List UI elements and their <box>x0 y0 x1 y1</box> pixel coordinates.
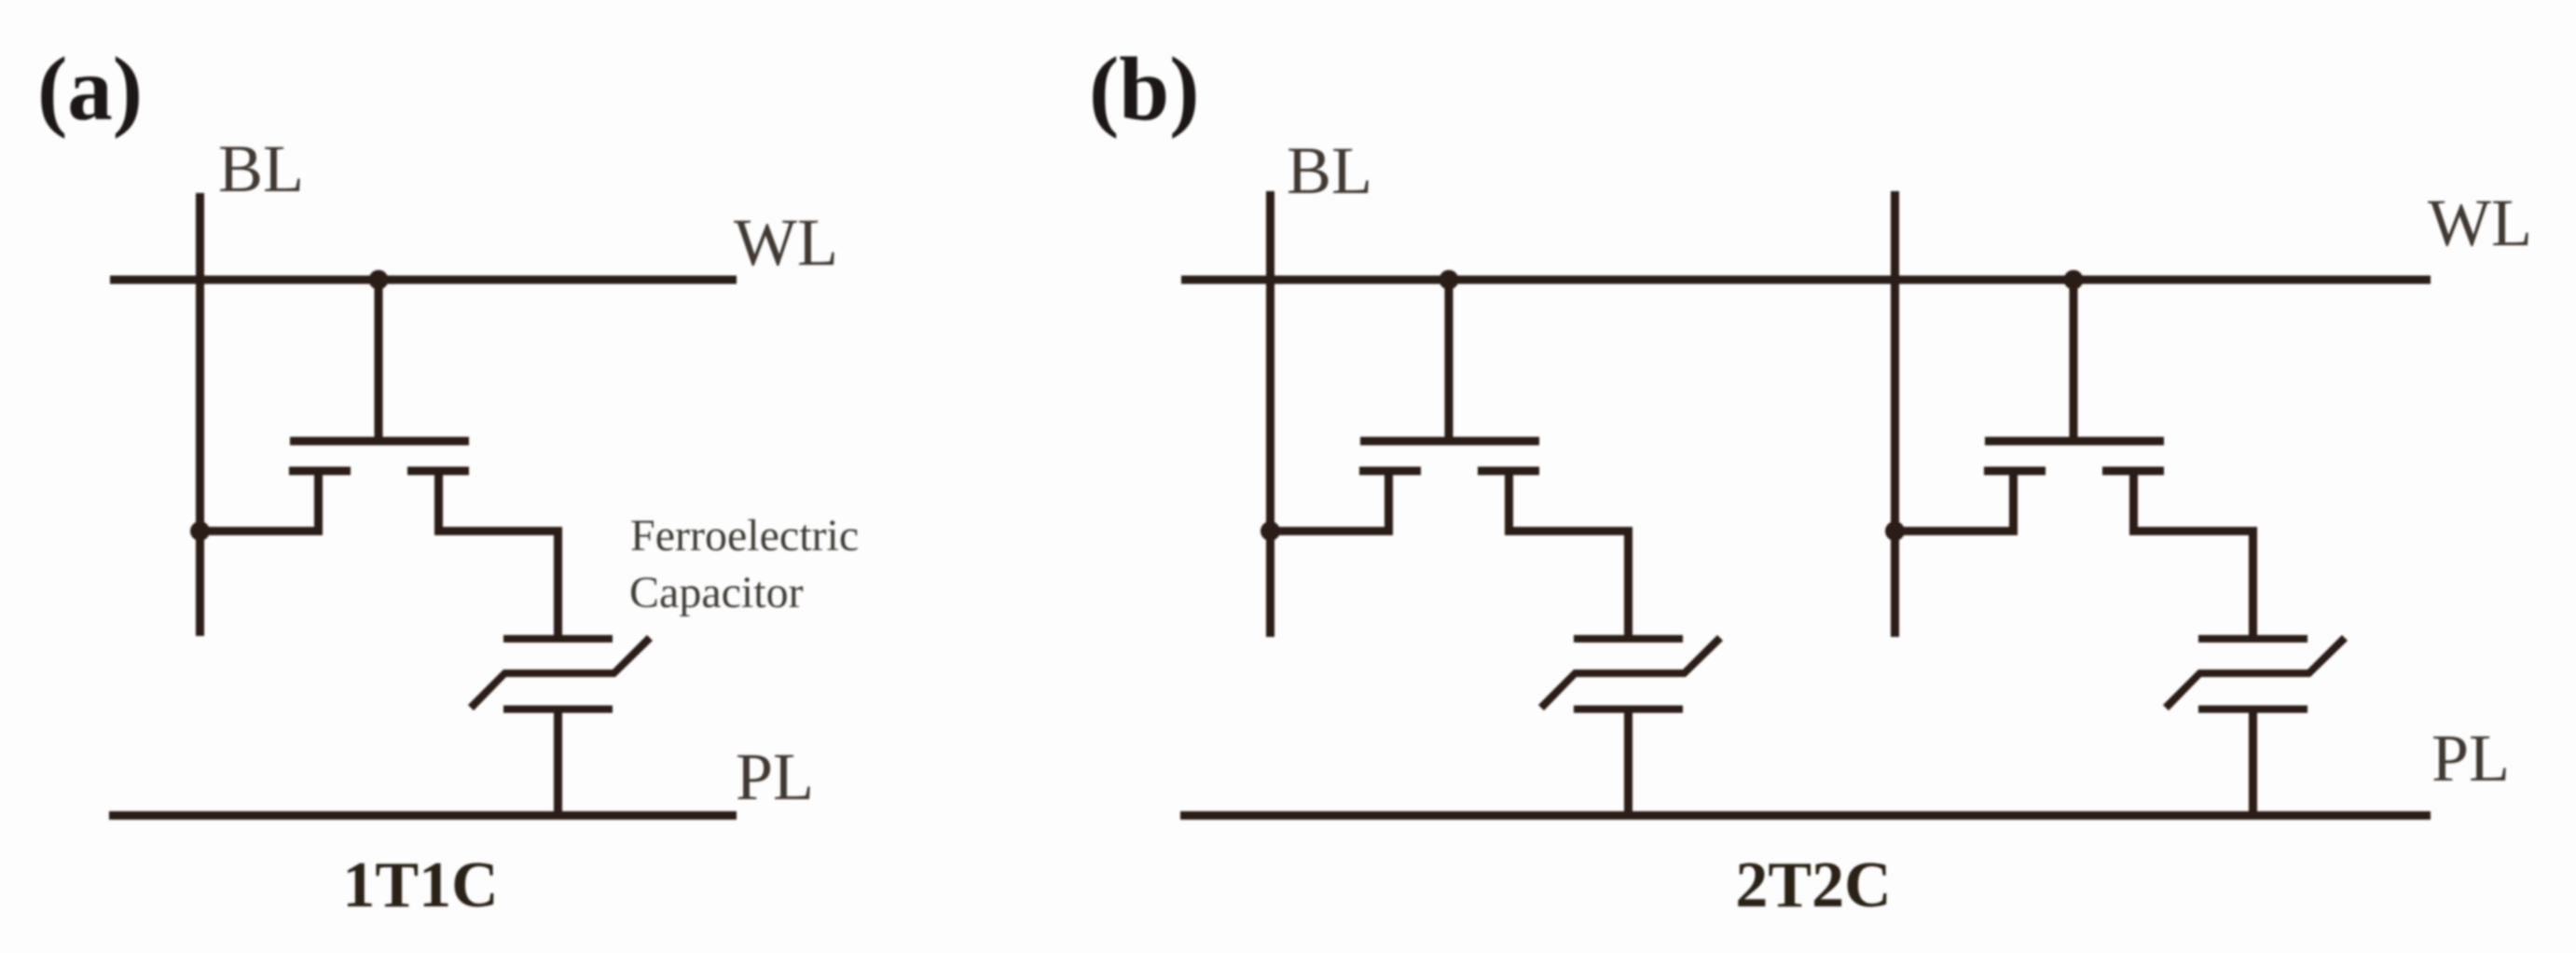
svg-text:(b): (b) <box>1089 39 1200 139</box>
wire BL bit line (b) <box>1266 191 1274 637</box>
wire capacitor to PL (a) <box>554 709 562 816</box>
junction gate on WL (a) <box>369 270 389 290</box>
svg-text:1T1C: 1T1C <box>342 849 498 921</box>
junction gate 1 on WL (b) <box>1440 270 1459 290</box>
junction gate 2 on WL (b) <box>2064 270 2084 290</box>
junction source on BL (a) <box>190 521 210 541</box>
svg-text:Ferroelectric: Ferroelectric <box>630 511 859 560</box>
junction source on BL (b) <box>1260 521 1280 541</box>
svg-text:PL: PL <box>2431 721 2510 795</box>
wire WL word line (a) <box>110 276 737 284</box>
wire drain to capacitor (a) <box>434 527 562 639</box>
wire PL plate line (a) <box>109 811 737 820</box>
transistor M1 <box>289 280 469 532</box>
wire source to BLB (b right) <box>1895 527 2018 535</box>
wire capacitor to PL (b right) <box>2249 709 2257 816</box>
wire WL word line (b) <box>1181 276 2431 284</box>
svg-text:2T2C: 2T2C <box>1735 849 1891 921</box>
ferroelectric capacitor C2 <box>1538 635 1723 713</box>
wire capacitor to PL (b left) <box>1624 709 1632 816</box>
svg-text:WL: WL <box>734 205 838 280</box>
svg-text:BL: BL <box>1287 133 1372 208</box>
wire source to BL (a) <box>200 527 324 535</box>
svg-text:PL: PL <box>736 739 814 814</box>
ferroelectric capacitor C3 <box>2163 635 2348 713</box>
wire BLB complementary bit line (b) <box>1891 191 1899 637</box>
svg-text:(a): (a) <box>37 39 143 139</box>
wire BL bit line (a) <box>196 193 204 636</box>
transistor M3 <box>1984 280 2164 532</box>
wire source to BL (b left) <box>1271 527 1394 535</box>
svg-text:BL: BL <box>218 131 304 206</box>
wire drain to capacitor (b left) <box>1505 527 1632 639</box>
junction source on BLB (b) <box>1885 521 1905 541</box>
svg-text:Capacitor: Capacitor <box>629 568 804 617</box>
ferroelectric capacitor C1 <box>468 635 653 713</box>
transistor M2 <box>1359 280 1539 532</box>
wire drain to capacitor (b right) <box>2129 527 2257 639</box>
svg-text:WL: WL <box>2428 186 2532 260</box>
wire PL plate line (b) <box>1180 811 2431 820</box>
